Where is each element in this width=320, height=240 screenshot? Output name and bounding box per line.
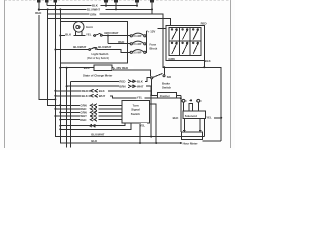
wires solenoid to hour meter — [183, 102, 201, 132]
wire vertical rail from meter row down — [66, 68, 68, 148]
svg-text:+ 36V RED: + 36V RED — [114, 66, 128, 70]
svg-text:BLK: BLK — [82, 94, 89, 98]
wire RED to fuse2 — [108, 36, 130, 44]
label BLK bottom bus — [91, 139, 100, 142]
label WHT (row5) — [98, 94, 107, 98]
wire drop T5 — [115, 3, 117, 10]
svg-text:BLK: BLK — [205, 59, 212, 63]
label WHT (row3) — [137, 84, 146, 88]
horn inner glyph — [76, 26, 79, 29]
solenoid coil rect — [189, 104, 192, 111]
label GRN row1 — [80, 103, 89, 107]
label YEL solenoid — [206, 115, 214, 119]
label BRN — [119, 84, 128, 88]
wire rail x47 — [48, 9, 61, 105]
svg-text:BLU/WHT: BLU/WHT — [73, 45, 86, 49]
wire BRN>WHT row — [67, 86, 158, 95]
wire BLU/WHT right — [97, 50, 130, 53]
label YEL vertical — [139, 123, 147, 127]
switch contacts grid (6 cells) — [169, 28, 201, 56]
label BLU/WHT right — [98, 45, 116, 48]
wire switchbox corner drop — [203, 61, 205, 68]
label BLU/WHT bottom bus — [91, 133, 109, 137]
svg-text:BLU/WHT: BLU/WHT — [98, 45, 111, 49]
label BLU/WHT left — [73, 45, 91, 48]
wire 4th feed to switch box — [48, 19, 171, 26]
wire turn box bottom to BLK bus — [139, 123, 141, 143]
wire YEL solenoid to right vertical — [206, 117, 222, 119]
wire brake left down — [150, 79, 153, 137]
svg-text:BLK: BLK — [137, 80, 144, 84]
svg-text:RED: RED — [201, 22, 207, 26]
light switch assembly box — [60, 22, 127, 64]
horn terminal stubs — [76, 31, 82, 35]
svg-text:Solenoid: Solenoid — [185, 114, 197, 118]
svg-text:Horn: Horn — [86, 25, 93, 29]
wire BLK<WHT row — [55, 96, 180, 98]
connector RED>BLK — [128, 80, 135, 83]
svg-text:Switch: Switch — [162, 86, 171, 90]
connector BLK<WHT — [89, 94, 98, 97]
label YEL horn row — [86, 33, 94, 36]
label +36V RED — [113, 66, 133, 70]
wire BLK to brake switch — [163, 67, 165, 74]
label RED (row2) — [119, 79, 127, 83]
svg-text:BLK: BLK — [173, 116, 180, 120]
terminal T2 — [45, 0, 49, 3]
terminal T4 — [104, 0, 108, 3]
wire stack row1 GRN — [60, 104, 122, 106]
label GRN top bus — [90, 12, 100, 15]
svg-text:RED: RED — [35, 11, 41, 15]
terminal T5 — [114, 0, 118, 3]
svg-text:10 AMP: 10 AMP — [133, 51, 142, 54]
wire BLU/WHT top bus — [39, 8, 152, 10]
label GRN row3 — [80, 111, 89, 115]
wire turn box right to bus — [150, 104, 157, 143]
label BLK (row4) — [98, 89, 107, 93]
terminal T1 — [37, 0, 41, 3]
svg-text:GRN: GRN — [168, 57, 174, 61]
border frame right — [229, 0, 231, 148]
wire stack row5 RED — [60, 119, 122, 121]
svg-text:15 AMP: 15 AMP — [133, 35, 142, 38]
border frame left — [3, 0, 5, 148]
connector row5 — [90, 118, 97, 121]
connector row1 — [90, 104, 97, 107]
junction dot horn row — [59, 35, 61, 37]
label WHT row4 — [80, 114, 89, 118]
wire meter right +36V RED — [112, 68, 151, 77]
svg-text:BLK: BLK — [91, 139, 98, 143]
svg-text:WHT: WHT — [99, 94, 106, 98]
connector row4 — [90, 115, 97, 118]
label RED top right — [200, 21, 208, 25]
top edge connector strip — [4, 0, 230, 2]
label RED left — [35, 11, 43, 15]
svg-text:BLK: BLK — [65, 33, 72, 37]
connector row2 — [90, 107, 97, 110]
wire rail x56 from T3 to bottom bus BLU/WHT — [55, 3, 204, 137]
svg-text:Block: Block — [150, 47, 158, 51]
svg-text:BLU/WHT: BLU/WHT — [91, 133, 104, 137]
svg-text:Flasher: Flasher — [160, 94, 171, 98]
svg-text:State of Charge Meter: State of Charge Meter — [83, 73, 113, 77]
fuse bus to +12V — [146, 31, 148, 53]
wire BLK top bus — [47, 5, 137, 7]
turn signal switch box — [122, 101, 150, 124]
svg-text:YEL: YEL — [86, 33, 92, 37]
state of charge meter box — [94, 65, 112, 70]
state of charge meter BLK label — [83, 66, 92, 69]
fuse F1 — [130, 35, 132, 37]
label YEL on wire — [136, 95, 144, 99]
wire horn row BLK-YEL — [60, 35, 93, 37]
svg-text:RED: RED — [118, 40, 124, 44]
wire GRN top bus wrapping right side down — [48, 14, 222, 141]
svg-text:GRN: GRN — [90, 12, 96, 16]
solenoid enclosure — [181, 95, 221, 141]
wire stack row3 GRN — [60, 111, 122, 113]
svg-text:Switch: Switch — [131, 112, 140, 116]
solenoid terminal circles — [181, 99, 201, 102]
svg-text:WHT: WHT — [137, 84, 144, 88]
wire turn box outputs to left rails — [60, 123, 131, 129]
label RED row5 — [80, 118, 88, 122]
wire drop T4 — [105, 3, 107, 6]
brake switch — [151, 77, 153, 79]
hour meter box — [182, 132, 203, 139]
wire drop T6 — [136, 3, 138, 6]
wire rail x61 to bottom bus BLK — [60, 9, 181, 143]
label BLK (row5) — [82, 94, 91, 98]
wire flasher right to solenoid top — [177, 94, 181, 96]
label BLK top bus — [92, 3, 101, 6]
wire BLU/WHT bus up to solenoid area — [204, 118, 206, 137]
svg-text:BLK: BLK — [99, 89, 106, 93]
wire from T2 — [46, 3, 48, 6]
svg-text:(Part of Key Switch): (Part of Key Switch) — [87, 57, 109, 60]
svg-text:RED: RED — [80, 118, 86, 122]
svg-text:YEL: YEL — [206, 115, 212, 119]
svg-text:+ 12V: + 12V — [148, 29, 156, 33]
svg-text:YEL: YEL — [137, 95, 143, 99]
switchbox top-right — [166, 25, 205, 60]
svg-text:BLU/WHT: BLU/WHT — [87, 8, 100, 12]
svg-text:GRN /WHT: GRN /WHT — [104, 31, 119, 35]
wire rail from T1 — [39, 3, 56, 100]
svg-text:Hour Meter: Hour Meter — [183, 142, 199, 146]
fuse F2 — [130, 43, 132, 45]
terminal T7 — [150, 0, 154, 3]
label RED (row4) — [82, 89, 90, 93]
label BLU/WHT top bus — [87, 8, 106, 11]
wire from T1 rail joins rail x56 — [54, 98, 56, 100]
connector BRN>WHT — [128, 85, 135, 88]
wire 12V to switch box — [158, 28, 166, 30]
connector row3 — [90, 111, 97, 114]
svg-text:Light Switch: Light Switch — [92, 52, 109, 56]
label BLK horn row — [65, 33, 74, 36]
label GRN/WHT — [104, 31, 121, 34]
fuse F3 — [130, 51, 132, 53]
wire RED<BLK row — [55, 90, 151, 92]
svg-text:RED: RED — [82, 89, 88, 93]
wire stack row4 WHT — [55, 115, 122, 117]
terminal T6 — [135, 0, 139, 3]
label RED fuse2 — [118, 40, 126, 43]
wire to fuse1 GRN/WHT — [102, 35, 130, 37]
junction dots top — [105, 5, 107, 7]
svg-text:RED: RED — [119, 80, 125, 84]
label RED row2 — [80, 107, 88, 111]
wire drop T7 — [151, 3, 153, 15]
flasher box — [158, 93, 177, 99]
solenoid box — [183, 111, 206, 119]
switch on horn row — [94, 35, 96, 37]
wire RED>BLK row — [70, 78, 150, 148]
wire BLU/WHT row — [55, 49, 88, 51]
horn circle — [73, 22, 84, 33]
terminal T3 — [54, 0, 58, 3]
wire meter left — [60, 67, 94, 69]
label BLK (row2) — [137, 79, 146, 83]
connector RED<BLK — [89, 89, 98, 92]
svg-text:BRN: BRN — [119, 84, 125, 88]
wire stack row2 RED — [55, 108, 122, 110]
svg-text:15 AMP: 15 AMP — [133, 43, 142, 46]
switch on BLU/WHT row — [89, 49, 91, 51]
